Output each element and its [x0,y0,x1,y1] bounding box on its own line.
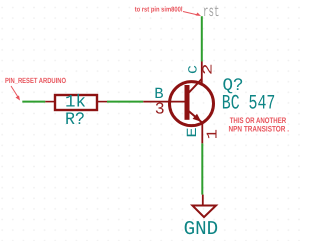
ground [192,195,216,218]
svg-text:THIS OR ANOTHER: THIS OR ANOTHER [230,116,287,125]
svg-text:rst: rst [203,3,220,21]
annotation arrow [11,86,20,101]
svg-text:C: C [187,65,201,74]
svg-text:GND: GND [184,218,219,240]
svg-text:NPN TRANSISTOR .: NPN TRANSISTOR . [229,125,290,134]
svg-text:R?: R? [65,110,85,130]
wire [107,101,143,103]
wire [201,143,203,194]
wire [22,101,45,103]
svg-text:1: 1 [205,129,222,139]
svg-text:to rst pin sim800l: to rst pin sim800l [135,6,183,14]
wire [201,16,203,61]
transistor Q? BC547 (NPN) [143,62,213,144]
svg-text:2: 2 [201,63,216,75]
svg-text:E: E [185,127,201,137]
svg-text:3: 3 [155,100,165,119]
annotation arrow [183,12,201,17]
svg-text:BC 547: BC 547 [222,92,275,115]
svg-text:PIN_RESET ARDUINO: PIN_RESET ARDUINO [5,76,66,85]
resistor R? 1k [45,95,107,110]
